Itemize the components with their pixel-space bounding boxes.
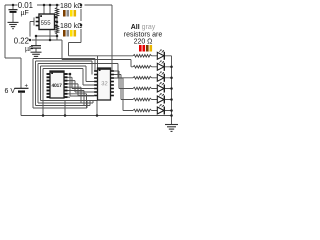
svg-text:32: 32 [101, 81, 107, 87]
svg-text:resistors are: resistors are [124, 31, 163, 38]
svg-text:180 kΩ: 180 kΩ [60, 3, 82, 10]
svg-text:µF: µF [21, 10, 29, 17]
svg-text:0.22: 0.22 [14, 37, 29, 46]
svg-text:4017: 4017 [51, 83, 62, 89]
svg-text:µF: µF [25, 46, 33, 53]
svg-text:+: + [25, 84, 29, 90]
svg-text:0.01: 0.01 [18, 1, 33, 10]
svg-text:555: 555 [41, 21, 52, 27]
svg-text:All gray: All gray [131, 24, 156, 31]
svg-text:180 kΩ: 180 kΩ [60, 23, 82, 30]
svg-text:220 Ω: 220 Ω [134, 39, 153, 46]
svg-text:6 V: 6 V [5, 88, 16, 95]
